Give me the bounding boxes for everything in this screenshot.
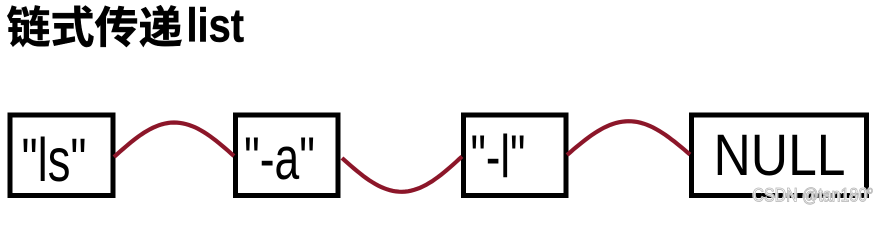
title char 式	[53, 6, 94, 47]
svg-text:"-l": "-l"	[471, 123, 526, 190]
node box "-a"	[236, 115, 339, 196]
wire curve -l to NULL	[567, 121, 690, 155]
node box NULL	[692, 115, 867, 196]
wire curve -a to -l	[342, 157, 462, 192]
node box "-l"	[464, 115, 567, 196]
svg-text:NULL: NULL	[714, 123, 846, 188]
watermark CSDN @tan180	[753, 186, 874, 207]
svg-text:"-a": "-a"	[244, 125, 315, 192]
node box "ls"	[10, 115, 113, 196]
svg-text:CSDN @tan180°: CSDN @tan180°	[753, 186, 874, 207]
wire curve ls to -a	[114, 123, 234, 158]
title char 链	[7, 5, 49, 46]
svg-text:list: list	[187, 0, 245, 52]
svg-text:"ls": "ls"	[22, 126, 87, 194]
title char 递	[140, 5, 182, 47]
title char 传	[95, 6, 137, 47]
